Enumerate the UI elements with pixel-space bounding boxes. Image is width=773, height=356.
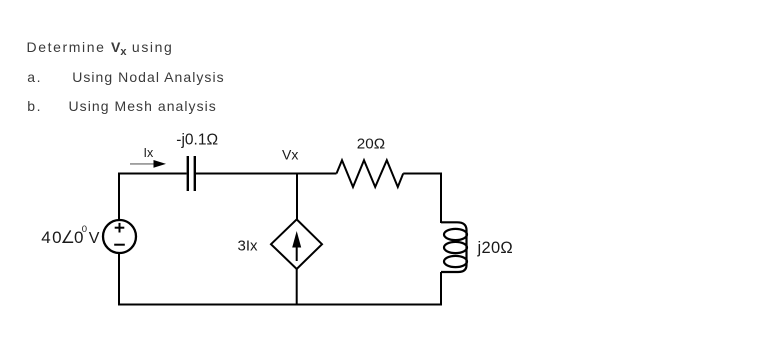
wire left vertical upper (corner to source): [118, 173, 120, 221]
voltage source plus sign: [115, 223, 125, 233]
wire top middle segment (capacitor to resistor): [196, 173, 337, 175]
resistor R1 20 ohm zigzag: [337, 160, 404, 187]
wire left vertical lower (source to bottom): [118, 253, 120, 306]
svg-text:-j0.1Ω: -j0.1Ω: [176, 132, 218, 149]
wire top right segment (resistor to corner): [403, 173, 442, 175]
svg-text:V: V: [89, 230, 100, 247]
inductor L1 j20 ohm body: [441, 222, 467, 272]
wire middle vertical lower (dep source to bottom): [296, 269, 298, 306]
wire top-left segment: [118, 173, 187, 175]
labels: [41, 132, 513, 257]
wire middle vertical upper (Vx node to dep source): [296, 174, 298, 220]
Ix current arrow: [130, 160, 166, 168]
item b: [27, 99, 42, 113]
svg-text:3Ix: 3Ix: [238, 238, 259, 255]
svg-text:0: 0: [52, 228, 61, 247]
svg-text:j20Ω: j20Ω: [477, 239, 514, 257]
item a: [27, 70, 42, 84]
dependent source arrow (up): [292, 231, 301, 261]
angle symbol of phasor: [63, 230, 73, 242]
capacitor C1 -j0.1 ohm: [188, 156, 195, 191]
svg-text:Ix: Ix: [144, 146, 154, 160]
wire bottom horizontal: [118, 304, 442, 306]
wire right vertical upper (corner to inductor): [440, 173, 442, 224]
dependent current source D1 3Ix diamond: [271, 219, 322, 269]
voltage source minus sign: [114, 244, 125, 246]
svg-text:20Ω: 20Ω: [357, 136, 385, 153]
voltage source VS 40&#8736;0&#176;V circle: [103, 220, 136, 253]
svg-text:Vx: Vx: [282, 146, 298, 162]
svg-text:4: 4: [41, 228, 50, 247]
svg-text:0: 0: [82, 224, 87, 235]
heading line: Determine Vx using: [27, 40, 174, 58]
wire right vertical lower (inductor to bottom): [440, 272, 442, 306]
